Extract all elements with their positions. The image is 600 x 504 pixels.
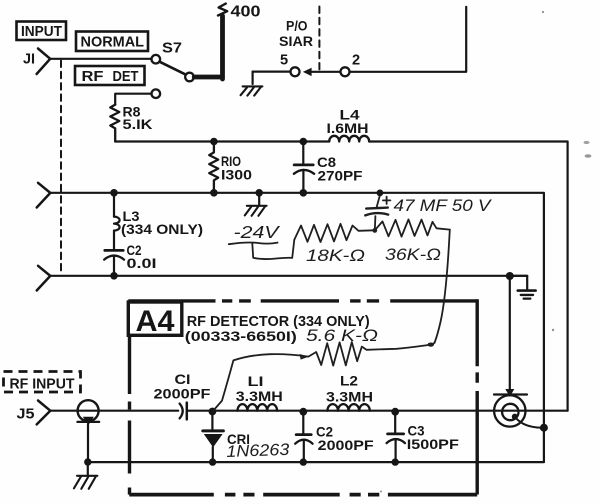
scan speck top: [380, 11, 591, 493]
node R10 top: [210, 138, 218, 146]
svg-text:5: 5: [280, 53, 288, 69]
terminal 5: [280, 53, 300, 77]
inductor L3: [114, 193, 203, 249]
annotation resistor 18K: [294, 224, 374, 265]
inductor L4: [327, 108, 370, 142]
wire ground to pin 5: [253, 70, 291, 72]
node C2 bottom: [110, 272, 118, 280]
svg-text:C3: C3: [408, 423, 425, 438]
resistor 400 (partial): [218, 3, 261, 20]
dashed line P/O SIAR: [318, 7, 320, 70]
wire bus y193: [50, 193, 544, 424]
svg-text:P/O: P/O: [286, 19, 308, 34]
svg-text:400: 400: [231, 3, 261, 20]
svg-text:NORMAL: NORMAL: [81, 35, 145, 51]
node C1/CR1/L1: [209, 408, 217, 416]
capacitor C2: [295, 412, 374, 462]
svg-text:3.3MH: 3.3MH: [236, 389, 283, 404]
wire bus y411: [50, 410, 567, 412]
terminal 2: [341, 53, 361, 77]
svg-text:A4: A4: [136, 305, 175, 338]
svg-text:DET: DET: [113, 69, 139, 85]
svg-text:I.6MH: I.6MH: [327, 121, 369, 136]
capacitor C8: [294, 142, 363, 193]
label NORMAL: [76, 32, 148, 52]
A4 title text: [185, 314, 370, 345]
resistor R10: [209, 142, 252, 193]
inductor L2: [326, 374, 373, 411]
svg-text:RF INPUT: RF INPUT: [10, 376, 75, 392]
node L3 top: [110, 189, 118, 197]
A4 box: [128, 299, 477, 494]
label INPUT: [17, 22, 67, 41]
node C3 bottom bus: [392, 458, 399, 465]
capacitor C3: [387, 412, 459, 462]
node J5 ground: [84, 458, 91, 465]
node CR1 bottom: [209, 458, 216, 465]
svg-text:RF: RF: [82, 69, 104, 85]
connector J1: [23, 49, 50, 75]
arrow between pins: [303, 68, 341, 76]
earth ground right: [510, 276, 536, 299]
svg-text:I500PF: I500PF: [407, 437, 459, 452]
svg-text:(334 ONLY): (334 ONLY): [121, 222, 203, 237]
svg-text:INPUT: INPUT: [21, 23, 62, 40]
svg-text:47 MF 50 V: 47 MF 50 V: [394, 197, 493, 215]
wire bus y276: [50, 275, 527, 277]
inductor L1: [236, 374, 283, 411]
node right corner: [540, 424, 548, 462]
svg-text:36K-Ω: 36K-Ω: [385, 245, 441, 264]
annotation resistor 5.6K with leader: [213, 327, 435, 411]
connector J5: [17, 401, 51, 425]
svg-text:1N6263: 1N6263: [226, 441, 290, 461]
svg-text:18K-Ω: 18K-Ω: [306, 246, 365, 265]
wire pin2 up right: [350, 7, 467, 72]
coax shield J5: [77, 400, 99, 462]
annotation junction blob: [428, 343, 434, 347]
capacitor C2 0.01: [104, 243, 156, 276]
node C2 bottom bus: [300, 458, 307, 465]
annotation capacitor 47MF: [365, 190, 492, 233]
annotation wire down: [435, 230, 450, 343]
svg-text:270PF: 270PF: [318, 168, 363, 183]
svg-text:2: 2: [352, 53, 360, 69]
svg-text:3.3MH: 3.3MH: [326, 390, 373, 405]
svg-text:(00333-6650I): (00333-6650I): [185, 329, 297, 345]
svg-text:-24V: -24V: [234, 222, 282, 242]
connector chevron mid: [37, 183, 51, 208]
ground mid: [245, 193, 267, 216]
svg-text:2000PF: 2000PF: [154, 386, 211, 401]
annotation resistor 36K: [375, 219, 450, 264]
wire thick to resistor 400: [194, 16, 222, 79]
svg-text:L2: L2: [340, 374, 358, 389]
svg-text:SIAR: SIAR: [279, 34, 313, 49]
wire bus y462: [88, 461, 544, 463]
wire J1 to S7: [50, 58, 151, 60]
node C8 top: [300, 138, 308, 146]
wire RF DET contact to R8: [115, 94, 151, 105]
label P/O SIAR: [279, 19, 313, 49]
A4 designator: [128, 302, 182, 338]
label RF DET: [75, 66, 145, 85]
svg-text:5.6 K-Ω: 5.6 K-Ω: [306, 327, 378, 345]
ground at S7: [241, 72, 263, 96]
wire bus y141: [115, 142, 567, 411]
svg-text:2000PF: 2000PF: [318, 438, 374, 453]
annotation 1N6263: [226, 441, 290, 461]
node right bus: [506, 272, 514, 280]
node L2/C3: [391, 408, 399, 416]
switch S7: [152, 40, 194, 98]
node R10 bottom: [210, 189, 218, 197]
ground J5: [74, 462, 98, 489]
svg-text:I300: I300: [221, 168, 252, 183]
node C8 bottom: [300, 189, 308, 197]
svg-text:JI: JI: [23, 51, 35, 67]
node ground stub: [255, 189, 263, 197]
svg-text:J5: J5: [17, 406, 35, 422]
svg-text:0.0I: 0.0I: [127, 256, 157, 271]
svg-text:S7: S7: [162, 40, 182, 56]
wire node to coax top: [494, 276, 527, 397]
capacitor C1: [154, 372, 211, 419]
svg-text:CI: CI: [175, 372, 191, 387]
node L1/L2/C2: [299, 408, 307, 416]
diode CR1: [203, 412, 250, 462]
connector chevron lower: [37, 266, 51, 291]
coax connector output: [494, 395, 541, 428]
svg-text:5.IK: 5.IK: [123, 117, 153, 132]
svg-text:LI: LI: [248, 374, 264, 389]
resistor R8: [110, 104, 152, 141]
dashed line J1: [60, 61, 62, 275]
annotation -24V: [229, 222, 294, 259]
label RF INPUT: [4, 372, 81, 393]
